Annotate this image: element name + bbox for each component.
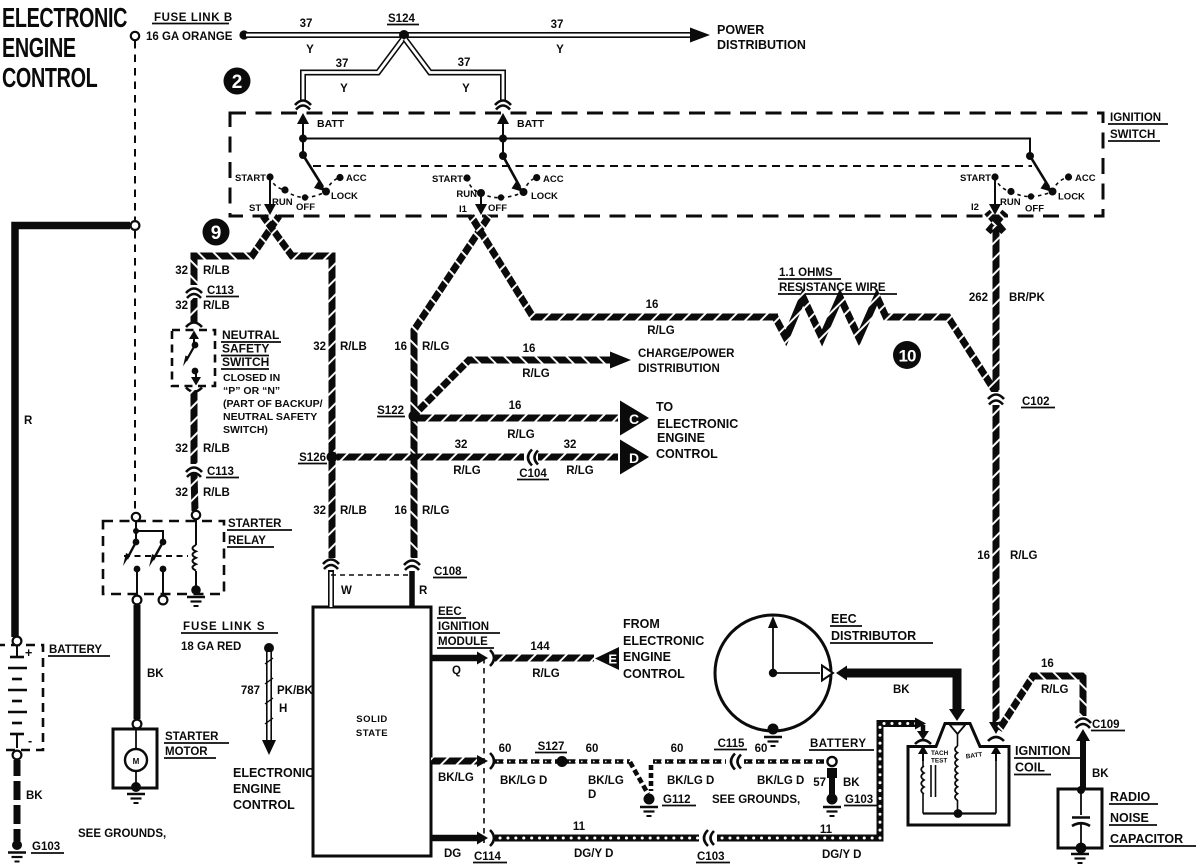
node: starter motor terminal circle: [133, 720, 142, 729]
wire BK: relay to starter motor: [134, 605, 141, 719]
svg-text:S126: S126: [299, 452, 326, 464]
label IGNITION SWITCH: [1108, 112, 1168, 141]
label 37/Y left of S124: [300, 18, 315, 56]
svg-text:BK: BK: [843, 777, 860, 789]
svg-text:TACH: TACH: [931, 750, 949, 757]
svg-text:SEE GROUNDS,: SEE GROUNDS,: [712, 794, 800, 806]
svg-text:H: H: [279, 703, 287, 715]
svg-text:16 GA ORANGE: 16 GA ORANGE: [146, 31, 233, 43]
label TACH TEST: [931, 750, 949, 765]
svg-text:CONTROL: CONTROL: [233, 798, 295, 812]
circled number 2: [224, 68, 251, 95]
ignition switch dashed box: [230, 113, 1103, 216]
label 32 R/LB (below upper C113): [175, 300, 230, 312]
starter motor internals: [125, 729, 147, 792]
svg-text:9: 9: [211, 223, 222, 244]
svg-text:16: 16: [1041, 658, 1054, 670]
svg-text:11: 11: [820, 824, 833, 836]
svg-text:DISTRIBUTION: DISTRIBUTION: [638, 363, 720, 375]
svg-text:D: D: [629, 450, 639, 466]
label 1.1 OHMS RESISTANCE WIRE: [778, 267, 897, 294]
solid state module (EEC ignition module) box: [313, 607, 431, 856]
label C108: [433, 566, 467, 578]
svg-text:BK/LG: BK/LG: [588, 775, 624, 787]
splice S122: [377, 405, 405, 417]
label FROM ELECTRONIC ENGINE CONTROL: [623, 617, 704, 681]
svg-text:R/LG: R/LG: [422, 505, 450, 517]
splice dot S122: [409, 411, 420, 422]
connector C104: [524, 449, 538, 466]
EEC distributor circle: [715, 615, 831, 731]
svg-text:BK/LG D: BK/LG D: [757, 775, 804, 787]
label SEE GROUNDS, (left): [78, 828, 166, 840]
svg-text:ENGINE: ENGINE: [233, 782, 281, 796]
switch 2 contacts and arm: [463, 135, 540, 201]
svg-text:32: 32: [455, 439, 468, 451]
svg-text:LOCK: LOCK: [1058, 192, 1085, 203]
svg-text:R/LB: R/LB: [203, 265, 230, 277]
wire: I2 tepee and vertical BR/PK (hatched): [987, 212, 1005, 390]
circled number 10: [893, 341, 921, 369]
svg-text:ACC: ACC: [543, 174, 564, 185]
label G112: [662, 794, 696, 806]
wire: S126 to arrow D (hatched): [337, 454, 618, 461]
svg-text:R: R: [24, 415, 33, 427]
capacitor internals: [1072, 786, 1090, 853]
connector chevrons at BATT terminal 1: [295, 101, 311, 110]
svg-text:R/LG: R/LG: [1010, 550, 1038, 562]
label SOLID STATE: [356, 714, 388, 739]
svg-text:2: 2: [232, 72, 243, 93]
wire: BK/LG D dotted run to S127 and onward: [495, 759, 630, 764]
svg-text:ENGINE: ENGINE: [2, 33, 76, 64]
label BK (distributor wire): [893, 684, 910, 696]
svg-text:R/LG: R/LG: [422, 341, 450, 353]
wire: coil BATT to radio noise capacitor branch (hatched): [999, 676, 1083, 730]
svg-text:DISTRIBUTION: DISTRIBUTION: [717, 38, 806, 52]
connector C102: [988, 392, 1004, 405]
svg-text:FUSE LINK B: FUSE LINK B: [154, 12, 233, 24]
circled number 9: [203, 219, 230, 246]
switch 3 I2 terminal arrow: [989, 180, 1001, 215]
wire: dashed linkage line inside ignition switch: [313, 165, 1032, 167]
svg-text:G103: G103: [32, 841, 60, 853]
label POWER DISTRIBUTION: [717, 23, 806, 52]
coil TACH TEST terminal arrow: [918, 746, 928, 762]
svg-text:R/LG: R/LG: [1041, 684, 1069, 696]
label 787 PK/BK H: [241, 685, 314, 715]
svg-text:BK/LG D: BK/LG D: [667, 775, 714, 787]
svg-text:TO: TO: [656, 400, 673, 414]
label 37/Y on right branch: [458, 57, 471, 95]
connector chevrons at BATT terminal 2: [495, 101, 511, 110]
starter motor ground: [127, 794, 145, 803]
label 11 DG/Y D (right segment): [820, 824, 862, 861]
label BATT 2: [517, 118, 545, 130]
label FUSE LINK B / 16 GA ORANGE: [146, 12, 233, 43]
svg-text:R: R: [419, 585, 428, 597]
connector C115: [731, 754, 741, 770]
svg-text:PK/BK: PK/BK: [277, 685, 313, 697]
connector C103: [704, 830, 714, 846]
svg-text:STARTER: STARTER: [165, 731, 219, 743]
node: battery feed circle (right): [827, 757, 836, 766]
connector chevron at coil TACH terminal: [915, 740, 931, 744]
svg-text:CONTROL: CONTROL: [656, 447, 718, 461]
svg-text:BATTERY: BATTERY: [810, 738, 867, 750]
label ST: [249, 203, 261, 214]
svg-text:R/LB: R/LB: [203, 443, 230, 455]
label ELECTRONIC ENGINE CONTROL (destination): [233, 766, 314, 812]
svg-text:SWITCH: SWITCH: [222, 355, 269, 369]
label 37/Y right of S124: [551, 19, 565, 56]
label C113 (upper): [206, 285, 239, 297]
svg-text:32: 32: [313, 341, 326, 353]
svg-text:BK/LG: BK/LG: [438, 772, 474, 784]
resistor: 1.1 ohms resistance wire zigzag: [775, 297, 996, 393]
svg-text:C113: C113: [207, 285, 234, 297]
svg-text:POWER: POWER: [717, 23, 764, 37]
label 37/Y on left branch: [336, 58, 349, 95]
wire: branch to ground G112 (dotted diagonal): [630, 762, 651, 794]
svg-text:S124: S124: [388, 13, 415, 25]
svg-text:32: 32: [564, 439, 577, 451]
svg-text:DG: DG: [444, 848, 461, 860]
svg-text:16: 16: [509, 400, 522, 412]
svg-text:C108: C108: [434, 566, 462, 578]
label I1: [459, 204, 468, 215]
label STARTER RELAY: [227, 518, 292, 547]
svg-text:NOISE: NOISE: [1110, 811, 1149, 825]
label 60 / BK-LG D (segment C): [667, 743, 714, 787]
svg-text:SOLID: SOLID: [356, 714, 388, 725]
svg-text:R/LB: R/LB: [203, 300, 230, 312]
wire: R/LB down to neutral safety switch: [191, 298, 198, 322]
svg-text:+: +: [25, 646, 32, 660]
svg-text:RELAY: RELAY: [228, 535, 266, 547]
svg-text:57: 57: [813, 777, 826, 789]
dashed link between C108 halves: [331, 574, 411, 576]
wire: dashed vertical from fuse link B terminal down to starter relay: [134, 41, 136, 512]
switch 1 contacts and arm: [266, 135, 343, 201]
connector chevron at coil BATT terminal: [988, 737, 1004, 741]
svg-text:START: START: [960, 173, 991, 184]
svg-text:DISTRIBUTOR: DISTRIBUTOR: [831, 629, 916, 643]
svg-text:G103: G103: [845, 794, 873, 806]
node: open circle junction on battery feed: [131, 221, 140, 230]
splice S126: [298, 452, 327, 464]
svg-text:W: W: [341, 585, 352, 597]
svg-text:32: 32: [313, 505, 326, 517]
svg-text:37: 37: [300, 18, 313, 30]
svg-text:TEST: TEST: [931, 758, 947, 765]
svg-text:CLOSED IN: CLOSED IN: [223, 372, 280, 384]
svg-text:BATT: BATT: [317, 118, 345, 130]
svg-text:ELECTRONIC: ELECTRONIC: [657, 417, 738, 431]
label C103: [696, 851, 730, 863]
connector chevron below NSS: [186, 388, 202, 392]
svg-text:G112: G112: [663, 794, 691, 806]
svg-text:C114: C114: [474, 851, 501, 863]
wire: Q lead from module (solid then hatched) to arrow E: [431, 650, 594, 666]
switch 3 position labels: [960, 173, 1096, 215]
label BATT (coil): [965, 751, 982, 760]
label Q: [452, 665, 461, 677]
wire: R lead into module (solid): [409, 571, 415, 607]
svg-text:I2: I2: [971, 202, 979, 213]
label BK (capacitor): [1092, 768, 1109, 780]
svg-text:BK: BK: [147, 668, 164, 680]
svg-text:START: START: [432, 174, 463, 185]
wire: R/LB from lower C113 to starter relay: [194, 474, 195, 511]
svg-text:RUN: RUN: [272, 197, 293, 208]
label BATTERY (left): [48, 644, 110, 656]
svg-text:OFF: OFF: [1025, 204, 1044, 215]
wire: fusible link B (double line) to power distribution: [239, 28, 710, 43]
connector C108 (R lead): [404, 558, 420, 570]
node: battery positive terminal circle: [13, 637, 22, 646]
distributor rotor (clock hands): [768, 616, 833, 681]
svg-text:60: 60: [671, 743, 684, 755]
svg-text:R/LB: R/LB: [203, 487, 230, 499]
svg-text:RESISTANCE WIRE: RESISTANCE WIRE: [779, 282, 886, 294]
svg-text:ST: ST: [249, 203, 261, 214]
label G103 (left): [31, 841, 64, 853]
neutral safety switch dashed box: [172, 330, 215, 386]
svg-text:11: 11: [573, 821, 586, 833]
coil core lines: [931, 765, 936, 797]
label 60 / BK-LG D (segment D): [755, 743, 805, 787]
label 32 (lower C113 above): [175, 443, 230, 455]
svg-text:ENGINE: ENGINE: [657, 431, 705, 445]
dashed connector line C114 (vertical): [483, 658, 485, 843]
svg-text:START: START: [235, 173, 266, 184]
label 32 R/LB (above lower C113): [175, 487, 230, 499]
starter relay dashed box: [103, 521, 224, 594]
svg-text:262: 262: [969, 292, 988, 304]
switch 2 position labels: [432, 174, 564, 214]
arrow D to electronic engine control: [620, 440, 649, 475]
ground G112: [640, 794, 658, 817]
svg-text:BK/LG D: BK/LG D: [500, 775, 547, 787]
label TO ELECTRONIC ENGINE CONTROL: [656, 400, 738, 461]
svg-text:32: 32: [175, 300, 188, 312]
svg-text:R/LB: R/LB: [340, 341, 367, 353]
svg-text:LOCK: LOCK: [331, 191, 358, 202]
svg-text:144: 144: [530, 641, 550, 653]
wire: solid bus line inside ignition switch: [303, 139, 1030, 157]
svg-text:-: -: [28, 734, 32, 748]
splice dot S126: [327, 452, 338, 463]
wire: BK/LG D continues to battery (hot at all times): [744, 759, 824, 764]
wire: S122 to arrow C (hatched): [414, 415, 618, 422]
svg-text:(PART OF BACKUP/: (PART OF BACKUP/: [223, 398, 323, 410]
title ELECTRONIC ENGINE CONTROL: [2, 3, 127, 94]
svg-text:32: 32: [175, 443, 188, 455]
label C115: [714, 738, 747, 750]
label 16 R/LG (resistance wire feed): [646, 299, 675, 337]
wire: DG lead from module (solid): [431, 830, 494, 846]
svg-text:NEUTRAL SAFETY: NEUTRAL SAFETY: [223, 411, 317, 423]
relay coil: [193, 519, 197, 586]
label 262 BR/PK: [969, 292, 1046, 304]
wire BK: distributor to ignition coil (thick with arrows): [836, 666, 965, 722]
label 11 DG/Y D (left segment): [573, 821, 614, 860]
svg-text:IGNITION: IGNITION: [1110, 112, 1161, 124]
svg-text:R/LG: R/LG: [647, 325, 675, 337]
svg-text:MOTOR: MOTOR: [165, 746, 208, 758]
connector W (part of C108): [323, 560, 339, 570]
switch 3 contacts and arm: [991, 152, 1072, 200]
label W: [341, 585, 352, 597]
ground G103 (right): [823, 794, 841, 817]
label FUSE LINK S / 18 GA RED: [181, 621, 278, 653]
svg-text:D: D: [588, 789, 596, 801]
svg-text:SWITCH: SWITCH: [1110, 129, 1155, 141]
svg-text:60: 60: [755, 743, 768, 755]
svg-text:Q: Q: [452, 665, 461, 677]
svg-text:NEUTRAL: NEUTRAL: [222, 328, 279, 342]
svg-text:IGNITION: IGNITION: [1015, 744, 1071, 758]
label BATT 1: [317, 118, 345, 130]
svg-text:RUN: RUN: [1000, 197, 1021, 208]
svg-text:16: 16: [523, 343, 536, 355]
svg-text:DG/Y D: DG/Y D: [822, 849, 861, 861]
arrow E from electronic engine control: [595, 647, 619, 670]
label NEUTRAL SAFETY SWITCH: [221, 328, 281, 369]
svg-text:OFF: OFF: [296, 202, 315, 213]
svg-text:BATT: BATT: [517, 118, 545, 130]
wire: S124 left branch (double line) to BATT 1: [303, 39, 403, 100]
svg-text:E: E: [608, 652, 617, 667]
svg-text:COIL: COIL: [1015, 761, 1045, 775]
svg-text:RUN: RUN: [456, 189, 477, 200]
svg-text:ELECTRONIC: ELECTRONIC: [623, 634, 704, 648]
starter motor box: [113, 729, 157, 788]
switch 1 ST terminal arrow: [264, 180, 276, 215]
label G103 (right): [844, 794, 878, 806]
svg-text:ACC: ACC: [1075, 173, 1096, 184]
svg-text:16: 16: [646, 299, 659, 311]
label R: [24, 415, 33, 427]
ground G103 (left): [8, 840, 26, 862]
svg-text:ELECTRONIC: ELECTRONIC: [233, 766, 314, 780]
label 144 R/LG: [530, 641, 559, 680]
svg-text:37: 37: [551, 19, 564, 31]
svg-text:32: 32: [175, 265, 188, 277]
wire: S124 right branch (double line) to BATT 2: [405, 39, 503, 100]
label I2: [971, 202, 979, 213]
svg-text:M: M: [133, 757, 140, 766]
wire: R/LB from NSS to lower C113: [191, 390, 198, 464]
wire: W lead (double line) into module: [328, 570, 334, 607]
svg-text:Y: Y: [306, 44, 314, 56]
svg-text:C109: C109: [1092, 719, 1120, 731]
svg-text:EEC: EEC: [831, 612, 857, 626]
note: closed in P or N: [223, 372, 323, 436]
svg-text:S127: S127: [538, 741, 565, 753]
coil internal bus and BATT leg: [923, 761, 996, 818]
wire: DG/Y D continues, up and into coil TACH TEST: [717, 718, 929, 839]
svg-text:787: 787: [241, 685, 260, 697]
wire: I1 tepee legs (hatched): [414, 216, 778, 560]
node: open terminal circle at fuse link B: [131, 32, 139, 40]
svg-text:C103: C103: [697, 851, 725, 863]
svg-text:CHARGE/POWER: CHARGE/POWER: [638, 348, 735, 360]
wire BK: capacitor lead with up arrow: [1076, 729, 1090, 789]
label C114: [473, 851, 507, 863]
label 16 R/LG (below S122): [394, 505, 449, 517]
svg-text:BK: BK: [26, 790, 43, 802]
splice S127: [535, 741, 568, 767]
ignition coil box: [908, 724, 1009, 826]
connector C109: [1075, 716, 1091, 728]
label 32 R/LB (above C113): [175, 265, 230, 277]
label C113 (lower): [206, 466, 239, 478]
wire: BK/LG lead from module (hatched): [431, 753, 494, 769]
label 16 R/LG (coil feed): [977, 550, 1037, 562]
svg-text:C102: C102: [1022, 396, 1050, 408]
node: relay terminal circles on top edge: [132, 511, 200, 521]
svg-text:C115: C115: [718, 738, 745, 750]
svg-text:“P” OR “N”: “P” OR “N”: [223, 385, 280, 397]
svg-text:FROM: FROM: [623, 617, 660, 631]
svg-text:16: 16: [977, 550, 990, 562]
svg-text:R/LG: R/LG: [566, 465, 594, 477]
svg-text:C104: C104: [519, 468, 547, 480]
label 32 R/LB (on W leg): [313, 341, 367, 353]
wire: fuse link S (double line) with arrow to electronic engine control: [262, 643, 276, 755]
svg-text:CONTROL: CONTROL: [623, 667, 685, 681]
wire: R/LG down to ignition coil BATT (hatched): [989, 405, 1003, 734]
wire R: battery positive cable (thick): [15, 226, 130, 638]
svg-text:CAPACITOR: CAPACITOR: [1110, 832, 1183, 846]
svg-text:ACC: ACC: [346, 173, 367, 184]
svg-text:FUSE LINK S: FUSE LINK S: [183, 621, 266, 633]
svg-text:STARTER: STARTER: [228, 518, 282, 530]
svg-text:SWITCH): SWITCH): [223, 424, 268, 436]
label 57 BK: [813, 777, 860, 789]
svg-text:32: 32: [175, 487, 188, 499]
label 60 / BK-LG D (segment A): [499, 743, 548, 787]
wire: BK/LG D continues to C115: [653, 759, 726, 764]
svg-text:16: 16: [394, 341, 407, 353]
svg-text:BATTERY: BATTERY: [49, 644, 102, 656]
label BATTERY (right): [809, 738, 874, 750]
svg-text:MODULE: MODULE: [438, 636, 488, 648]
arrow C to electronic engine control: [620, 401, 649, 436]
wire: DG/Y D dotted run to C103: [495, 835, 699, 842]
battery (left) dashed box: [0, 645, 43, 750]
svg-text:BR/PK: BR/PK: [1009, 292, 1045, 304]
svg-text:CONTROL: CONTROL: [2, 63, 97, 94]
battery polarity labels: [25, 646, 32, 748]
svg-text:60: 60: [499, 743, 512, 755]
svg-text:R/LG: R/LG: [532, 668, 560, 680]
svg-text:R/LG: R/LG: [507, 429, 535, 441]
svg-text:OFF: OFF: [488, 203, 507, 214]
svg-text:SAFETY: SAFETY: [222, 342, 269, 356]
svg-text:ELECTRONIC: ELECTRONIC: [2, 3, 127, 34]
label 60 / BK-LG D (segment B): [586, 743, 624, 801]
label SEE GROUNDS, (right): [712, 794, 800, 806]
svg-text:EEC: EEC: [438, 606, 462, 618]
coil primary winding: [921, 761, 924, 814]
svg-text:37: 37: [458, 57, 471, 69]
splice S124: [387, 13, 419, 40]
svg-text:R/LG: R/LG: [453, 465, 481, 477]
switch 1 position labels: [235, 173, 367, 213]
